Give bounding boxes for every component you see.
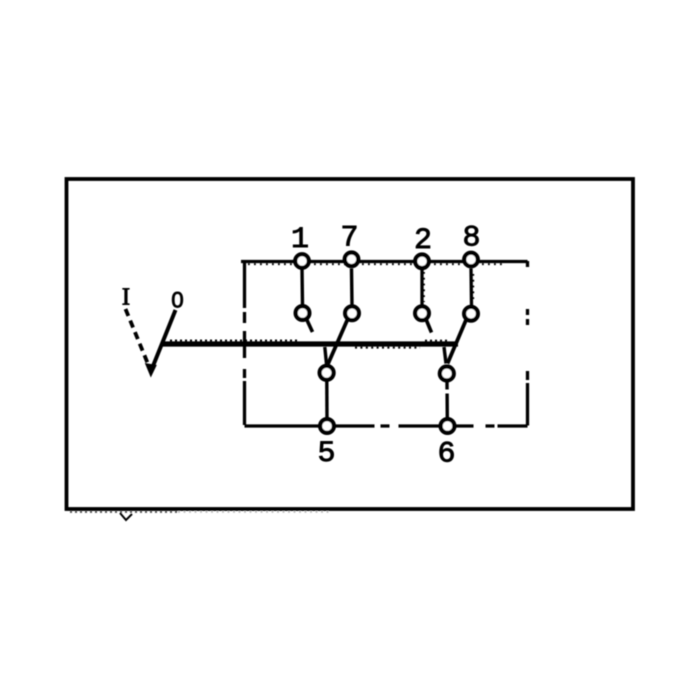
svg-text:6: 6 <box>437 438 455 472</box>
lever position I (dashed arm) <box>126 309 149 364</box>
lever position 0 (solid arm) <box>151 310 176 371</box>
mechanism boundary right edge (dash-dot) <box>526 261 529 426</box>
label I <box>122 284 130 311</box>
label 0 <box>171 288 183 313</box>
actuator bar <box>163 341 458 348</box>
blade 7-5 (closed contact diagonal) <box>325 320 348 365</box>
wire terminal 2 to contact <box>422 269 424 306</box>
mechanism boundary bottom edge (dash-dot) <box>245 424 528 427</box>
contact above terminal 5 <box>320 366 334 380</box>
terminal 1 <box>291 223 309 268</box>
contact above terminal 6 <box>440 367 454 381</box>
terminal 2 <box>414 224 432 268</box>
wire terminal 8 to contact <box>471 269 473 306</box>
terminal 6 <box>437 419 455 471</box>
switch housing outline <box>67 179 634 520</box>
lever arrowhead <box>145 363 157 378</box>
svg-text:1: 1 <box>291 223 309 257</box>
wire terminal 1 to contact <box>300 269 304 306</box>
pole 2 fixed contact <box>415 306 431 332</box>
svg-text:2: 2 <box>414 224 432 258</box>
terminal 8 <box>462 222 480 267</box>
pole 8 movable contact <box>464 307 478 321</box>
svg-text:8: 8 <box>462 222 480 256</box>
pole 1 fixed contact <box>296 306 313 332</box>
wire contact to terminal 6 <box>445 382 449 419</box>
terminal 7 <box>340 222 358 267</box>
wire contact to terminal 5 <box>325 381 329 418</box>
wire terminal 7 to contact <box>350 269 354 306</box>
svg-text:I: I <box>122 284 130 311</box>
blade 8-6 (closed contact diagonal) <box>444 320 466 364</box>
terminal 5 <box>317 419 335 471</box>
mechanism boundary left edge (dash-dot) <box>243 261 246 426</box>
mechanism boundary top edge <box>241 262 528 265</box>
pole 7 movable contact <box>345 306 359 320</box>
svg-text:7: 7 <box>340 222 358 256</box>
svg-text:0: 0 <box>171 288 183 313</box>
svg-text:5: 5 <box>317 437 335 471</box>
